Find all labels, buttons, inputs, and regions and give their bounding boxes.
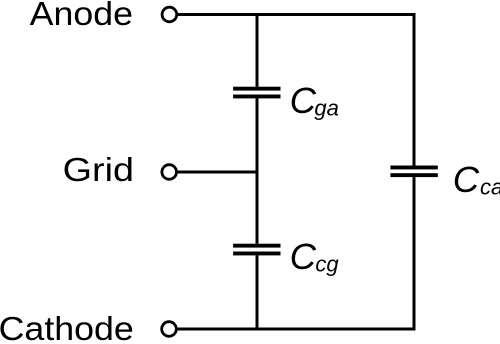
- wire: top junction to top-right corner: [257, 13, 416, 16]
- capacitor Cga: [233, 87, 280, 99]
- label Ccg: [290, 236, 340, 277]
- capacitor Ccg: [233, 244, 280, 256]
- terminal: cathode: [162, 322, 177, 337]
- wire: grid terminal to middle junction (node G): [177, 171, 259, 174]
- svg-text:Cathode: Cathode: [0, 310, 134, 344]
- wire: right vertical, Cca bottom plate to bottom-right corner: [413, 177, 416, 330]
- label Cathode: [0, 310, 134, 344]
- label Cga: [290, 80, 339, 121]
- label Anode: [30, 0, 133, 32]
- terminal: grid: [162, 165, 177, 180]
- wire: middle vertical, Ccg bottom plate to bottom junction: [256, 255, 259, 330]
- wire: middle vertical, Cga bottom plate to grid junction: [256, 98, 259, 172]
- label Grid: [63, 151, 134, 188]
- svg-text:Grid: Grid: [63, 151, 134, 188]
- svg-text:Anode: Anode: [30, 0, 133, 32]
- wire: middle vertical, top segment (junction to Cga top plate): [256, 13, 259, 87]
- terminal: anode: [162, 7, 177, 22]
- capacitor Cca: [390, 166, 437, 178]
- label Cca: [453, 159, 500, 200]
- wire: anode terminal to top junction (node A): [177, 13, 257, 16]
- wire: bottom junction to bottom-right corner: [257, 328, 416, 331]
- wire: middle vertical, grid junction to Ccg top plate: [256, 172, 259, 244]
- wire: cathode terminal to bottom junction (node K): [177, 328, 257, 331]
- wire: right vertical, top-right corner to Cca top plate: [413, 13, 416, 166]
